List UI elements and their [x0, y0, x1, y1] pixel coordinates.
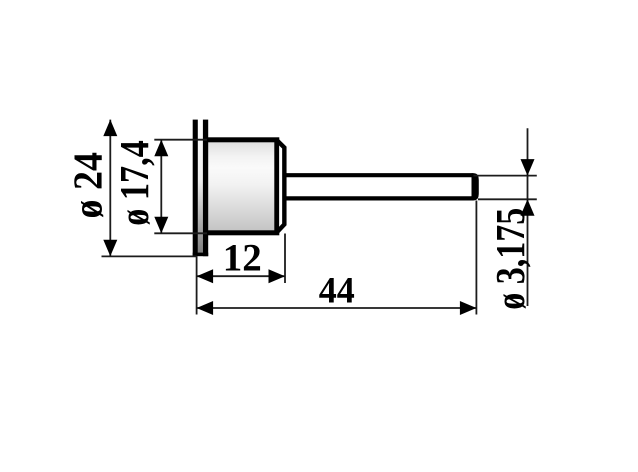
svg-text:ø 3,175: ø 3,175	[487, 208, 533, 310]
svg-text:12: 12	[223, 236, 262, 280]
svg-text:ø 24: ø 24	[65, 152, 111, 219]
svg-text:44: 44	[319, 270, 355, 311]
svg-text:ø 17,4: ø 17,4	[111, 140, 157, 226]
